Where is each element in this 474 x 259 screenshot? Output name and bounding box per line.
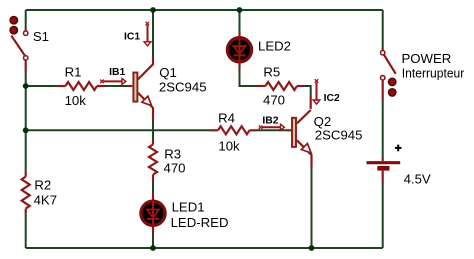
svg-text:470: 470: [164, 160, 186, 175]
svg-text:Q1: Q1: [159, 65, 177, 80]
svg-text:470: 470: [263, 93, 285, 108]
svg-text:LED1: LED1: [172, 200, 205, 215]
svg-text:LED2: LED2: [258, 39, 291, 54]
svg-text:IC2: IC2: [324, 93, 340, 104]
svg-text:R3: R3: [164, 146, 181, 161]
svg-text:LED-RED: LED-RED: [171, 215, 229, 230]
svg-text:2SC945: 2SC945: [159, 80, 207, 95]
svg-text:R1: R1: [65, 65, 82, 80]
svg-text:4.5V: 4.5V: [404, 172, 431, 187]
svg-text:R5: R5: [263, 64, 280, 79]
svg-text:POWER: POWER: [402, 51, 452, 66]
svg-text:IC1: IC1: [124, 32, 140, 43]
svg-text:IB1: IB1: [109, 67, 125, 78]
svg-text:R2: R2: [34, 177, 51, 192]
svg-text:10k: 10k: [218, 138, 240, 153]
svg-text:S1: S1: [33, 29, 49, 44]
svg-text:4K7: 4K7: [34, 192, 57, 207]
svg-text:IB2: IB2: [262, 115, 278, 126]
svg-text:2SC945: 2SC945: [315, 128, 363, 143]
svg-text:Interrupteur: Interrupteur: [402, 65, 465, 80]
svg-text:Q2: Q2: [314, 114, 332, 129]
svg-text:10k: 10k: [65, 93, 87, 108]
svg-text:R4: R4: [218, 111, 235, 126]
